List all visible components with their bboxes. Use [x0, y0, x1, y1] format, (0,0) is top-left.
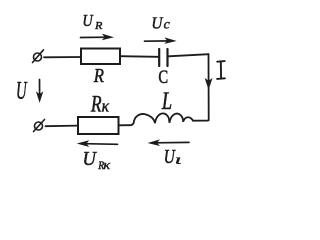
svg-text:U: U — [151, 13, 163, 33]
svg-text:C: C — [158, 66, 168, 87]
svg-text:R: R — [90, 92, 102, 117]
svg-text:U: U — [16, 75, 28, 104]
svg-text:c: c — [164, 17, 170, 32]
svg-text:κ: κ — [102, 98, 110, 116]
svg-text:κ: κ — [103, 158, 110, 172]
svg-text:U: U — [83, 148, 98, 170]
svg-text:ι: ι — [175, 152, 182, 167]
svg-text:R: R — [93, 65, 104, 87]
svg-text:R: R — [94, 21, 102, 32]
svg-text:L: L — [161, 88, 172, 115]
svg-text:U: U — [164, 145, 176, 167]
svg-text:U: U — [82, 12, 94, 30]
